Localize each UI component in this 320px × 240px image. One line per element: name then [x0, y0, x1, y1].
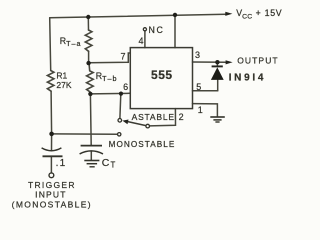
wire: pin 3 output: [193, 61, 227, 63]
svg-text:2: 2: [179, 112, 184, 122]
svg-text:R1: R1: [56, 70, 67, 80]
output arrow: [226, 60, 233, 64]
diode D1 IN914: [211, 66, 224, 80]
op-amp/IC U1 555 body: [130, 48, 192, 109]
wire: pin 5 stub: [193, 90, 218, 92]
wire: pin 6 from RT-b bottom node to IC: [90, 92, 130, 95]
resistor R1: [47, 71, 54, 92]
svg-text:OUTPUT: OUTPUT: [237, 56, 279, 66]
wire: trigger cap to input terminal: [50, 156, 52, 173]
node: junction dot pin6/astable contact: [119, 92, 123, 96]
wire: pin 1 to ground: [193, 104, 218, 117]
wire: pin 2 down and left to switch pole: [150, 109, 176, 126]
node: junction dot Vcc/pin8: [173, 13, 177, 17]
svg-text:.1: .1: [56, 158, 67, 169]
node: junction dot output/diode: [215, 60, 219, 64]
ground (below CT): [84, 161, 99, 167]
svg-text:3: 3: [195, 50, 200, 60]
svg-text:NC: NC: [149, 25, 165, 35]
NC terminal circle: [143, 28, 146, 31]
svg-text:7: 7: [120, 51, 125, 61]
wire: RT-a bottom to node: [88, 51, 90, 63]
svg-text:555: 555: [151, 68, 173, 82]
svg-text:(MONOSTABLE): (MONOSTABLE): [12, 199, 92, 209]
wire: pin 4 to NC terminal: [144, 31, 146, 48]
wire: diode top connection: [216, 62, 218, 66]
resistor RT-a: [85, 30, 92, 51]
wire: RT-b node down to CT: [89, 94, 92, 145]
node: junction dot trigger/R1/cap: [49, 132, 54, 137]
wire: R1 bottom to trigger node: [50, 91, 53, 134]
label TRIGGER INPUT (MONOSTABLE): [12, 180, 92, 209]
ground (pin 1): [210, 117, 225, 122]
wire: Vcc top rail: [50, 14, 226, 18]
svg-text:27K: 27K: [56, 80, 71, 90]
svg-text:MONOSTABLE: MONOSTABLE: [109, 140, 176, 149]
wire: Rta top drop from rail: [87, 17, 89, 30]
switch arm (astable/monostable selector): [122, 120, 146, 126]
trigger input terminal circle: [49, 173, 54, 178]
switch pole terminal circle: [146, 124, 150, 128]
wire: left vertical from Vcc corner to R1 top: [50, 18, 51, 71]
switch astable contact circle: [118, 119, 122, 123]
svg-text:4: 4: [138, 36, 143, 46]
node: junction dot Vcc/RT-a: [86, 15, 90, 19]
svg-text:5: 5: [196, 82, 201, 92]
wire: pin 8 drop from Vcc rail: [174, 15, 176, 47]
svg-text:IN9I4: IN9I4: [229, 72, 266, 83]
wire: monostable contact to trigger node: [53, 133, 117, 135]
wire: trigger node down to capacitor: [51, 134, 53, 150]
capacitor CT: [80, 146, 103, 154]
resistor RT-b: [87, 63, 94, 94]
wire: CT bottom to ground: [90, 152, 92, 161]
svg-text:INPUT: INPUT: [35, 189, 67, 199]
node: junction dot RT-b/CT/pin6: [88, 92, 92, 96]
label R1 value: [56, 70, 71, 90]
switch monostable contact circle: [118, 133, 121, 136]
svg-text:ASTABLE: ASTABLE: [132, 112, 175, 122]
node: junction dot RT-a/RT-b/pin7: [86, 61, 90, 65]
svg-text:6: 6: [123, 82, 128, 92]
wire: diode anode to pin 5: [217, 80, 219, 91]
wire: node to pin 7: [89, 53, 131, 63]
wire: pin6 node down to astable contact: [119, 94, 122, 119]
capacitor C1 0.1 (trigger coupling): [42, 148, 63, 156]
svg-text:1: 1: [198, 105, 203, 115]
Vcc arrow: [225, 12, 232, 16]
